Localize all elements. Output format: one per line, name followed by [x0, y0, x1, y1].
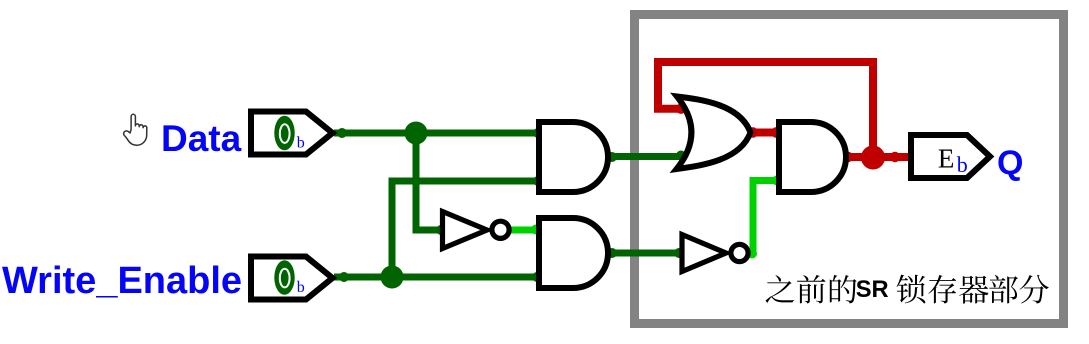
node OR lower input nub [676, 151, 686, 161]
svg-text:SR: SR [856, 277, 889, 303]
junction red at AND3 output [861, 146, 885, 170]
node Data pin connection nub [337, 128, 347, 138]
AND gate 2 (notData AND WE) [539, 218, 608, 288]
wire Write_Enable pin to AND2 input B [334, 274, 539, 281]
caption char 部 [989, 275, 1018, 303]
output pin Q [911, 135, 990, 178]
NOT gate 1 triangle [443, 212, 488, 249]
node AND3 upper input nub [771, 127, 781, 137]
caption char 分 [1020, 275, 1049, 304]
wire from WE junction up then to AND1 input B [392, 181, 540, 277]
Data pin value 0 glyph [280, 124, 290, 143]
WE pin value 0 ellipse [274, 260, 294, 295]
node AND1 upper input nub [533, 128, 543, 138]
wire NOT2 output vertical (high) [753, 181, 780, 254]
AND gate 1 (Data AND WE) [539, 122, 608, 192]
input pin Data [251, 112, 333, 155]
wire from Data junction down then to NOT1 input [416, 133, 443, 230]
NOT gate 2 bubble [731, 244, 748, 261]
junction on WE wire [381, 266, 404, 289]
svg-text:E: E [938, 144, 955, 174]
junction on Data wire [405, 122, 428, 145]
node WE pin connection nub [339, 272, 349, 282]
node NOT2 input nub [674, 248, 684, 258]
wire red stub to OR upper input [654, 105, 684, 113]
node Q pin connection nub [890, 152, 900, 162]
node OR output nub [748, 127, 758, 137]
node AND3 lower input nub [772, 176, 782, 186]
NOT gate 1 bubble [492, 221, 509, 238]
OR gate (in box) [677, 97, 751, 170]
node NOT1 input nub [436, 225, 446, 235]
node AND2 output nub [607, 248, 617, 258]
caption char 的 [830, 275, 857, 303]
input pin Write_Enable [251, 257, 333, 300]
node OR upper input nub [676, 104, 686, 114]
caption char 前 [797, 275, 826, 303]
wire NOT1 output (high) to AND2 input A [511, 227, 537, 234]
node NOT2 output nub [747, 249, 757, 259]
wire AND1 output to OR input [608, 153, 684, 160]
svg-text:b: b [957, 152, 968, 177]
svg-text:b: b [297, 134, 305, 151]
caption char 锁 [897, 275, 926, 304]
caption char 存 [928, 275, 956, 303]
wire AND2 output to NOT2 input [608, 250, 681, 257]
wire AND3 output to Q pin [846, 153, 908, 161]
svg-text:b: b [297, 279, 305, 296]
Data pin value 0 ellipse [274, 116, 294, 151]
svg-text:Write_Enable: Write_Enable [2, 260, 242, 302]
caption char 器 [959, 276, 988, 304]
node AND2 lower input nub [532, 272, 542, 282]
NOT gate 2 triangle [682, 235, 726, 272]
node AND2 upper input nub [531, 225, 541, 235]
wire red feedback loop [658, 62, 873, 157]
wire Data pin to AND1 input A [334, 130, 540, 137]
node AND3 output nub [843, 152, 853, 162]
gray box SR latch region [635, 15, 1064, 324]
node AND1 output nub [607, 152, 617, 162]
AND gate 3 (in box) [779, 122, 846, 192]
poke tool hand cursor [124, 114, 147, 145]
wire OR output to AND3 input [750, 129, 780, 137]
WE pin value 0 glyph [280, 269, 290, 288]
svg-text:Q: Q [997, 144, 1023, 182]
caption char 之 [766, 275, 795, 303]
node AND1 lower input nub [533, 176, 543, 186]
svg-text:Data: Data [161, 118, 242, 159]
